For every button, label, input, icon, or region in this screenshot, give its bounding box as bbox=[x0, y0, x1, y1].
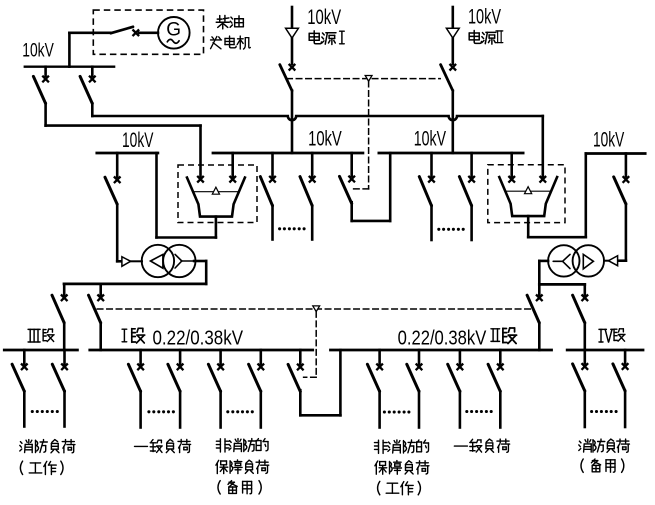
bus IV (0.22/0.38kV) bbox=[567, 349, 643, 352]
source II arrow bbox=[446, 28, 459, 38]
load breaker (bus IV) #2 bbox=[613, 350, 629, 427]
incomer breaker QF14 (to bus II) bbox=[527, 284, 543, 350]
label （工作）(bus III) bbox=[20, 461, 63, 474]
label 10kV source II bbox=[468, 6, 501, 29]
incomer breaker QF12 (to bus I) bbox=[89, 284, 105, 350]
svg-text:10kV: 10kV bbox=[468, 6, 501, 29]
load breaker (bus IV) #1 bbox=[573, 350, 589, 427]
svg-text:0.22/0.38kV: 0.22/0.38kV bbox=[153, 327, 244, 349]
svg-text:10kV: 10kV bbox=[122, 129, 153, 152]
bus II (0.22/0.38kV) bbox=[331, 349, 552, 352]
interlock arrow marker HV bbox=[365, 76, 372, 82]
breaker QF4 (source II) bbox=[441, 64, 457, 153]
bus 10kV middle-right bbox=[379, 152, 523, 155]
generator G (diesel) bbox=[158, 17, 190, 49]
label 一般负荷 (bus I) bbox=[135, 439, 191, 452]
label Ⅳ段 bbox=[599, 329, 625, 342]
incomer breaker QF11 (to bus III) bbox=[52, 284, 68, 350]
bus tie breaker QF16 (0.22/0.38kV) bbox=[288, 350, 304, 392]
wire T1 secondary to LV mini-bus bbox=[194, 261, 206, 284]
label 10kV right section bbox=[593, 128, 624, 151]
load breaker (bus III) #1 bbox=[12, 350, 28, 427]
load breaker (bus I) #3 bbox=[208, 350, 224, 428]
label 发电机 bbox=[211, 36, 251, 49]
svg-text:10kV: 10kV bbox=[307, 6, 341, 29]
label 电源Ⅰ bbox=[309, 31, 344, 45]
feeder breaker QF6 (middle-left bus) bbox=[300, 153, 316, 240]
label 保障负荷 (bus I) bbox=[216, 460, 269, 474]
wire LV bus tie U-link bbox=[300, 350, 340, 415]
ellipsis (more feeders, bus III) bbox=[31, 410, 59, 413]
label 保障负荷 (bus II) bbox=[375, 461, 429, 475]
label 消防负荷 (bus IV) bbox=[579, 439, 630, 452]
label 非消防的 (bus II) bbox=[375, 440, 429, 453]
wire ATS1 output to left section bus bbox=[157, 153, 216, 238]
bus III (0.22/0.38kV) bbox=[4, 349, 77, 352]
bus 10kV right section bbox=[586, 152, 645, 155]
wire trunk (diesel reserve feed) with crossover hops bbox=[92, 116, 543, 176]
label 消防负荷 (bus III loads) bbox=[20, 440, 75, 453]
ellipsis (more feeders, middle-left) bbox=[278, 227, 306, 230]
wire bbox=[291, 38, 294, 64]
incomer breaker QF15 (to bus IV) bbox=[573, 284, 589, 350]
label 10kV middle-left bbox=[308, 127, 342, 150]
wire diesel busbar to generator box bbox=[69, 33, 110, 67]
ATS1 input stub right (from middle-left bus) bbox=[229, 153, 236, 183]
transfer switch ATS2 enclosure (dashed box) bbox=[488, 165, 565, 223]
label 10kV middle-right bbox=[414, 127, 446, 150]
breaker QF2 (diesel busbar right) bbox=[80, 67, 96, 116]
transformer T2 bbox=[548, 245, 604, 276]
source I arrow bbox=[286, 28, 299, 38]
wire diesel feed to ATS1 left input bbox=[46, 126, 201, 177]
bus 10kV middle-left bbox=[213, 152, 363, 155]
ellipsis (more feeders, bus IV) bbox=[590, 410, 618, 413]
label 10kV source I bbox=[307, 6, 341, 29]
label 电源Ⅱ bbox=[469, 30, 503, 44]
label Ⅲ段 bbox=[28, 329, 54, 342]
ATS1 changeover body bbox=[187, 178, 245, 217]
interlock dashed line LV incomers bbox=[97, 308, 532, 310]
ellipsis (more feeders, middle-right) bbox=[437, 228, 465, 231]
load breaker (bus I) #4 bbox=[249, 350, 265, 428]
bus I (0.22/0.38kV) bbox=[90, 349, 313, 352]
feeder breaker QF5 (middle-left bus) bbox=[260, 153, 276, 240]
LV mini-bus left (T1 secondary) bbox=[64, 283, 206, 286]
transformer T1 bbox=[142, 245, 196, 277]
incoming source II line bbox=[451, 7, 454, 28]
bus 10kV left section bbox=[97, 152, 158, 155]
load breaker (bus II) #4 bbox=[488, 350, 504, 428]
load breaker (bus II) #3 bbox=[448, 350, 464, 428]
label 0.22/0.38kV (bus I) bbox=[153, 327, 244, 349]
label 一般负荷 (bus II) bbox=[454, 439, 509, 452]
bus tie breaker QF7 (10kV) bbox=[340, 153, 356, 204]
incoming source I line bbox=[291, 7, 294, 28]
svg-text:10kV: 10kV bbox=[22, 41, 54, 62]
feeder breaker QF8 (middle-right bus) bbox=[419, 153, 435, 240]
wire and plug arrow to T2 bbox=[604, 256, 626, 266]
ATS2 input stub left (from middle-right bus) bbox=[508, 153, 515, 183]
label 10kV (diesel busbar) bbox=[22, 41, 54, 62]
diesel generator enclosure (dashed box) bbox=[93, 10, 203, 54]
load breaker (bus I) #1 bbox=[128, 350, 144, 428]
feeder breaker QF9 (middle-right bus) bbox=[459, 153, 475, 240]
label （备用）(bus I) bbox=[218, 481, 261, 494]
breaker QF1 (diesel busbar left) bbox=[33, 67, 49, 126]
svg-text:0.22/0.38kV: 0.22/0.38kV bbox=[398, 327, 487, 349]
load breaker (bus II) #1 bbox=[367, 350, 383, 428]
load breaker (bus III) #2 bbox=[52, 350, 68, 427]
load breaker (bus II) #2 bbox=[407, 350, 423, 428]
svg-text:G: G bbox=[166, 19, 181, 40]
wire ATS2 output to right section bus bbox=[528, 154, 586, 238]
ellipsis (bus I standby loads) bbox=[226, 410, 254, 413]
label Ⅰ段 bbox=[122, 328, 145, 343]
ellipsis (bus II general loads) bbox=[465, 410, 493, 413]
ATS1 input contact left (from diesel) bbox=[197, 176, 204, 183]
interlock dashed drop to HV bus tie bbox=[353, 81, 369, 189]
wire and plug arrow to T1 bbox=[117, 257, 142, 267]
label Ⅱ段 bbox=[491, 328, 517, 343]
label 10kV left section bbox=[122, 129, 153, 152]
svg-text:10kV: 10kV bbox=[308, 127, 342, 150]
transfer switch ATS1 enclosure (dashed box) bbox=[178, 165, 257, 223]
ATS2 changeover body bbox=[499, 177, 557, 216]
label （工作）(bus II) bbox=[378, 481, 421, 494]
LV mini-bus right (T2 secondary) bbox=[539, 283, 585, 286]
breaker QF13 (T2 primary) bbox=[614, 154, 630, 261]
interlock dashed drop to LV bus tie bbox=[304, 312, 317, 378]
load breaker (bus I) #2 bbox=[168, 350, 184, 428]
ellipsis (bus II working loads) bbox=[383, 410, 411, 413]
label 0.22/0.38kV (bus II) bbox=[398, 327, 487, 349]
ellipsis (bus I general loads) bbox=[147, 410, 175, 413]
ATS2 input contact right (from trunk) bbox=[540, 176, 547, 183]
svg-text:10kV: 10kV bbox=[414, 127, 446, 150]
wire T2 secondary to LV mini-bus bbox=[539, 261, 548, 285]
breaker QF10 (T1 primary) bbox=[105, 153, 121, 261]
svg-text:10kV: 10kV bbox=[593, 128, 624, 151]
wire bbox=[451, 38, 454, 64]
label 柴油 bbox=[216, 15, 243, 28]
wire 10kV bus tie U-link bbox=[352, 153, 391, 221]
breaker QF3 (source I) bbox=[280, 64, 296, 153]
breaker QF0 (generator breaker) bbox=[111, 27, 158, 36]
busbar 10kV diesel bbox=[25, 65, 114, 67]
interlock dashed line HV sources bbox=[287, 78, 440, 80]
label 非消防的 (bus I) bbox=[216, 439, 268, 452]
interlock arrow marker LV bbox=[313, 306, 320, 312]
label （备用）(bus IV) bbox=[581, 459, 624, 472]
